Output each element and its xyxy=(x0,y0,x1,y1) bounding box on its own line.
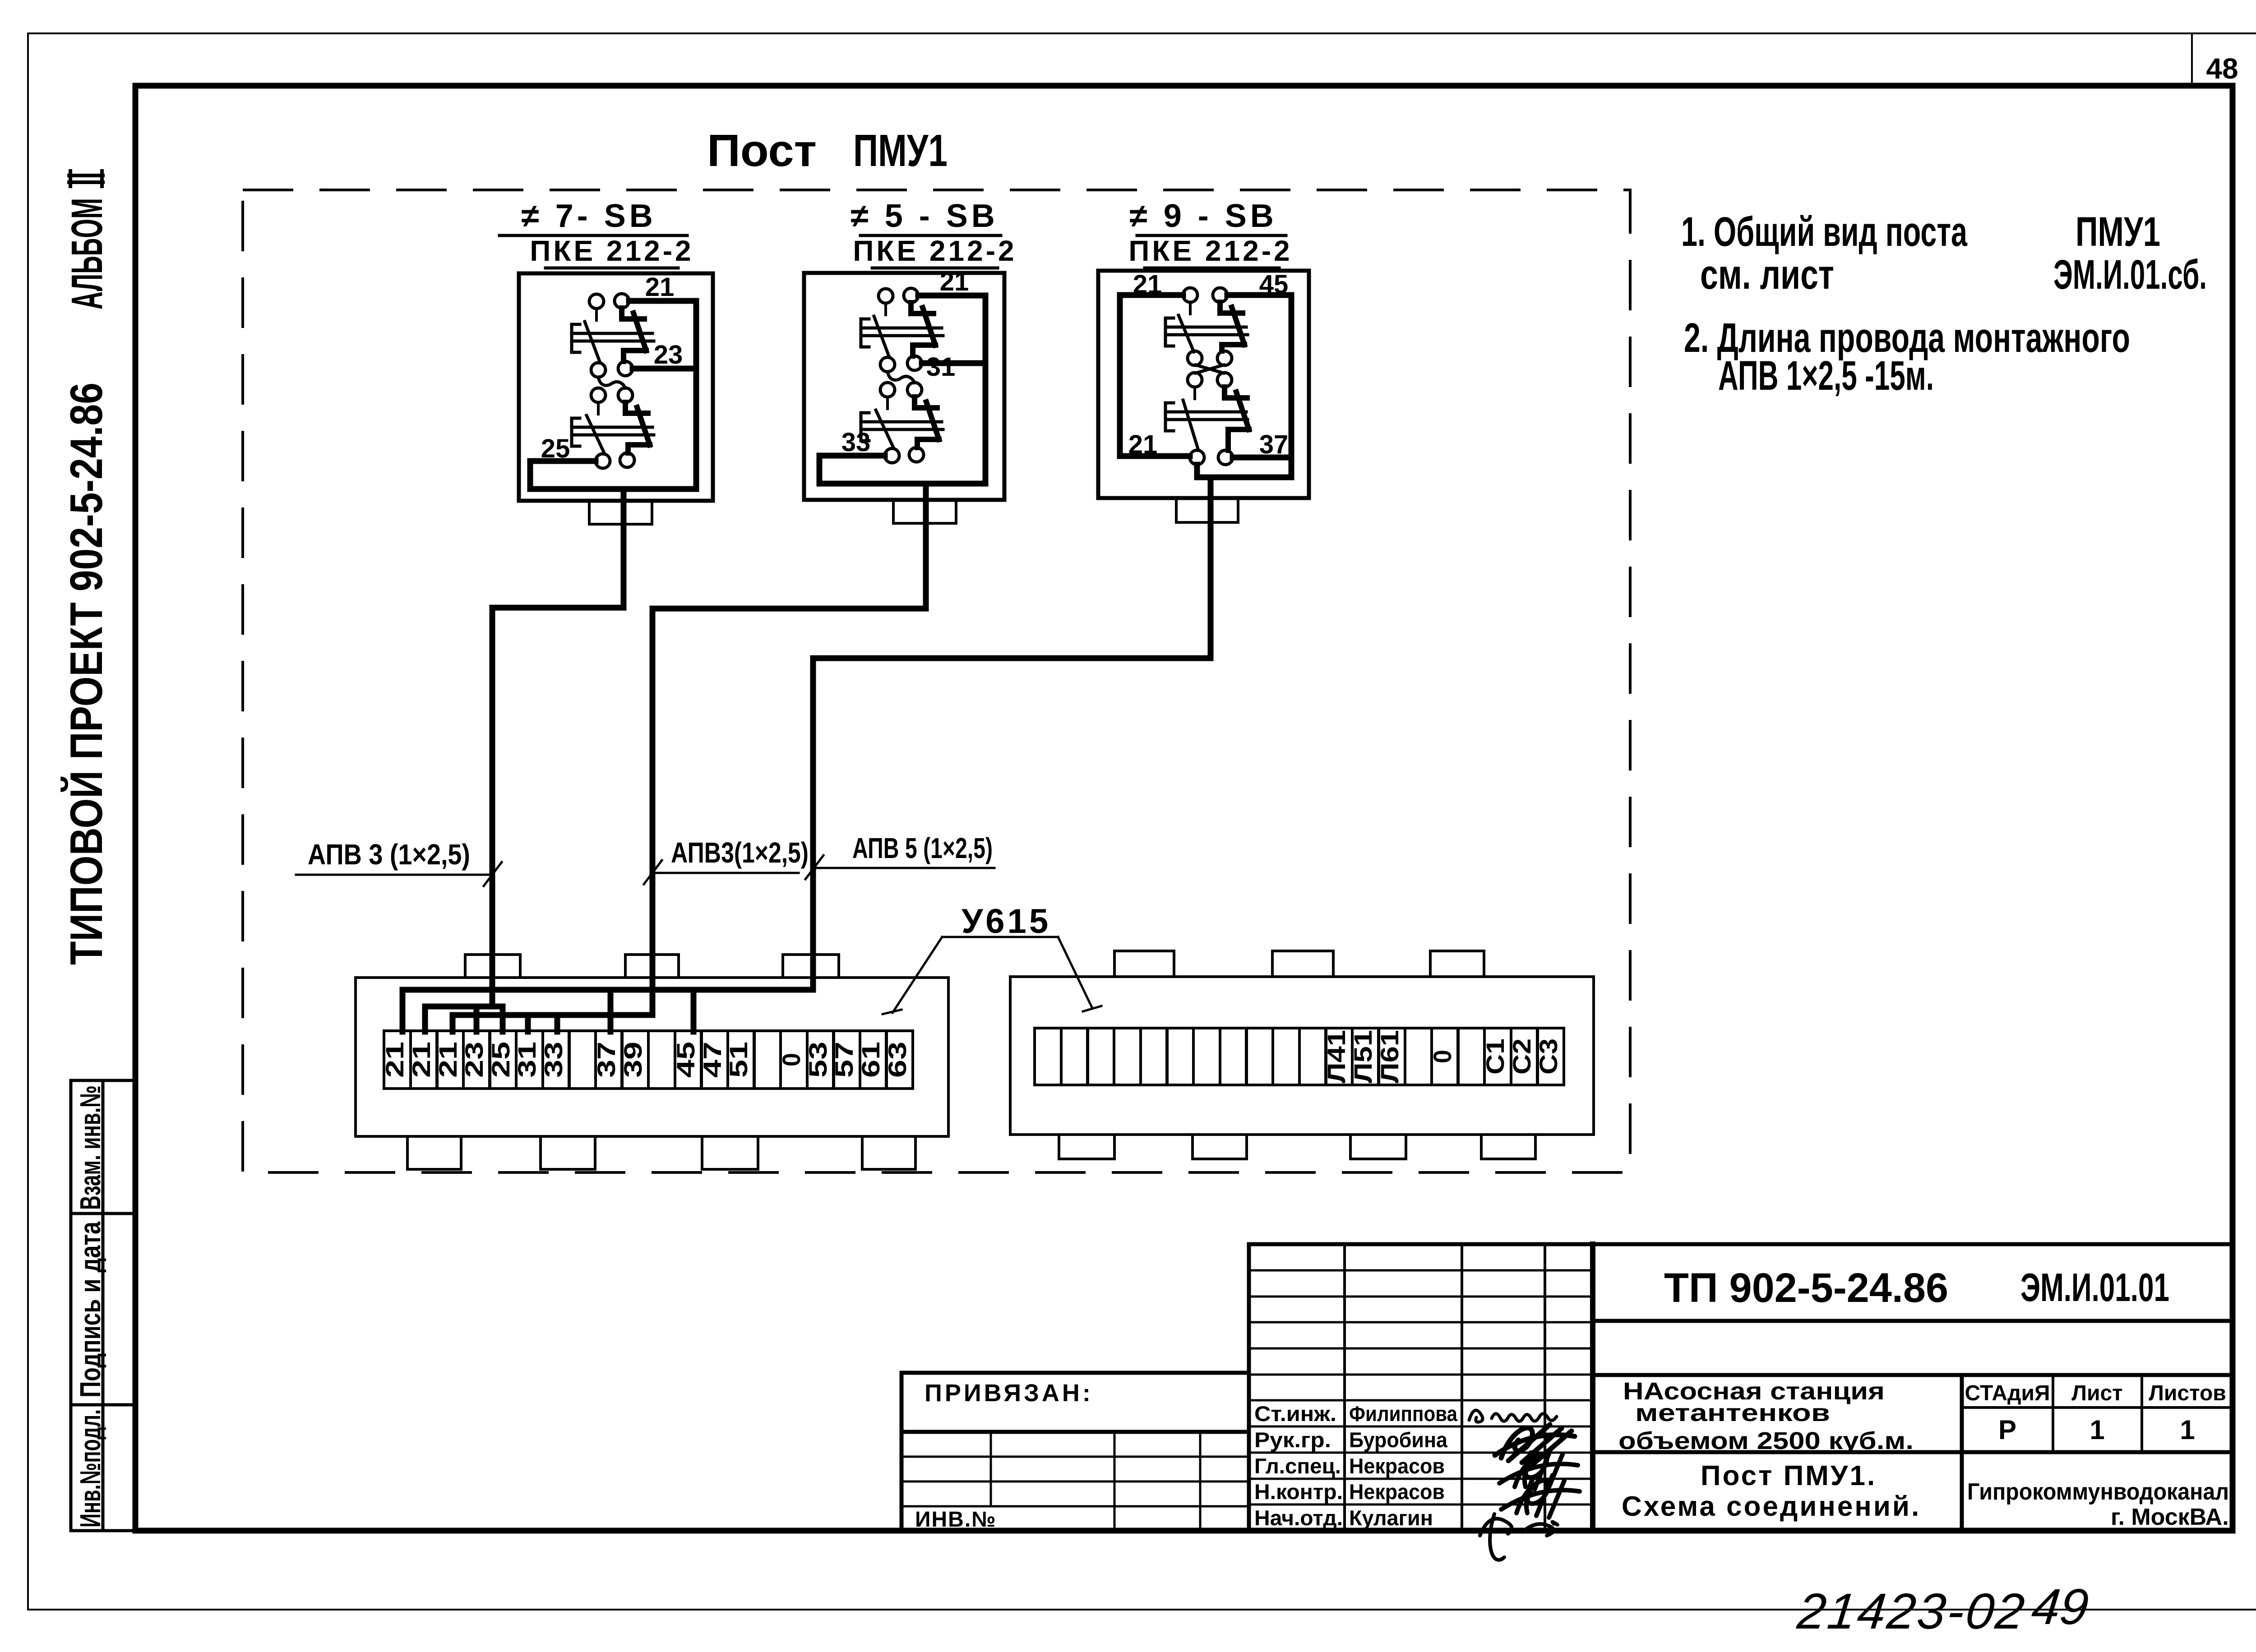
svg-text:Инв.№подл.: Инв.№подл. xyxy=(74,1409,106,1527)
svg-text:Кулагин: Кулагин xyxy=(1349,1506,1433,1530)
SB5 contact 1 fixed side xyxy=(861,303,943,357)
XT2 bottom mounting tabs xyxy=(1059,1135,1535,1159)
svg-text:Пост: Пост xyxy=(707,125,817,176)
svg-text:0: 0 xyxy=(1428,1050,1456,1063)
svg-text:21: 21 xyxy=(1133,270,1162,299)
SB9 internal jumper wire 37 xyxy=(1233,455,1291,461)
push-button SB5 enclosure box xyxy=(804,273,1004,500)
svg-text:33: 33 xyxy=(539,1042,568,1078)
svg-text:31: 31 xyxy=(926,352,956,382)
XT1 branch leg to terminal 25 xyxy=(500,1006,506,1032)
svg-text:Взам. инв.№: Взам. инв.№ xyxy=(74,1085,106,1210)
XT2 top mounting tabs xyxy=(1114,951,1484,977)
svg-text:21: 21 xyxy=(407,1042,435,1078)
svg-text:ПКЕ 212-2: ПКЕ 212-2 xyxy=(530,235,693,267)
svg-text:21: 21 xyxy=(1128,430,1158,459)
SB7 contact 1 fixed side xyxy=(572,309,654,363)
svg-text:37: 37 xyxy=(592,1042,620,1078)
svg-text:Р: Р xyxy=(1998,1415,2016,1445)
roman numeral II with bars xyxy=(69,171,103,186)
svg-text:Лист: Лист xyxy=(2071,1381,2122,1405)
svg-text:21: 21 xyxy=(380,1042,409,1078)
svg-text:Пост ПМУ1.: Пост ПМУ1. xyxy=(1701,1460,1877,1491)
line under empty row xyxy=(1593,1373,2233,1377)
XT1 branch leg to terminal 21-3 xyxy=(450,1015,456,1032)
line under document number row xyxy=(1593,1319,2233,1323)
svg-text:≠ 9 - SB: ≠ 9 - SB xyxy=(1129,198,1277,234)
signature Некрасов 2 xyxy=(1501,1475,1580,1518)
svg-text:Ст.инж.: Ст.инж. xyxy=(1254,1402,1336,1426)
svg-text:21: 21 xyxy=(940,267,969,296)
left stamp box ВЗАМ.ИНВ.№ xyxy=(71,1080,135,1214)
svg-text:53: 53 xyxy=(804,1042,832,1078)
SB9 terminal circles xyxy=(1183,288,1233,465)
title block revision grid verticals xyxy=(1247,1244,1251,1531)
svg-text:ТИПОВОЙ ПРОЕКТ 902-5-24.86: ТИПОВОЙ ПРОЕКТ 902-5-24.86 xyxy=(61,383,112,965)
XT1 branch leg to terminal 21-1 xyxy=(400,990,406,1032)
XT1 internal branch bus of SB9 wire xyxy=(402,987,813,993)
SB5 terminal circles xyxy=(878,288,924,463)
left stamp box Инв.№подл. xyxy=(71,1405,135,1531)
XT2 terminal numbers xyxy=(1322,1030,1563,1083)
sheet title Пост ПМУ1 Схема соединений xyxy=(1622,1460,1921,1522)
svg-text:45: 45 xyxy=(1259,270,1289,299)
stage table headers xyxy=(1965,1381,2226,1405)
SB5 contact 2 moving blade thick xyxy=(915,397,939,448)
organisation Гипрокоммунводоканал г.Москва xyxy=(1967,1479,2229,1530)
SB9 internal jumper wire 45 xyxy=(1227,295,1291,477)
svg-text:ПКЕ 212-2: ПКЕ 212-2 xyxy=(1128,235,1292,267)
XT1 branch leg to terminal 23 xyxy=(474,1006,480,1032)
stage values Р 1 1 xyxy=(1998,1415,2195,1445)
XT1 branch leg to terminal 33 xyxy=(555,1015,560,1032)
signature Филиппова xyxy=(1469,1410,1557,1422)
svg-text:ЭМ.И.01.сб.: ЭМ.И.01.сб. xyxy=(2053,252,2207,298)
wire АПВ5 from SB9 to terminal block XT1 xyxy=(813,477,1211,990)
push-button SB9 enclosure box xyxy=(1098,271,1309,498)
SB7 cable gland tab xyxy=(589,501,652,524)
svg-text:Буробина: Буробина xyxy=(1349,1428,1448,1452)
svg-text:Подпись и дата: Подпись и дата xyxy=(74,1222,106,1398)
svg-text:ТП 902-5-24.86: ТП 902-5-24.86 xyxy=(1664,1265,1948,1311)
SB7 internal jumper wire 23 xyxy=(633,366,696,372)
SB5 link curve between contacts xyxy=(888,372,915,383)
svg-text:ПМУ1: ПМУ1 xyxy=(2076,209,2160,255)
SB5 cable gland tab xyxy=(893,500,956,523)
svg-text:Л51: Л51 xyxy=(1349,1030,1377,1083)
svg-text:У615: У615 xyxy=(962,902,1051,941)
XT2 terminal strip cells xyxy=(1035,1028,1564,1085)
svg-text:Н.контр.: Н.контр. xyxy=(1254,1480,1343,1504)
SB7 terminal circles xyxy=(589,294,634,468)
svg-text:1: 1 xyxy=(2180,1415,2195,1445)
svg-text:37: 37 xyxy=(1259,430,1289,459)
SB9 contact 1 fixed side xyxy=(1165,302,1248,352)
signature Буробина xyxy=(1495,1425,1575,1464)
XT1 internal branch bus of SB7 wire xyxy=(425,1004,503,1010)
svg-text:1. Общий вид поста: 1. Общий вид поста xyxy=(1681,209,1968,255)
XT1 branch leg to terminal 31 xyxy=(525,1015,531,1032)
XT1 branch leg to terminal 45 xyxy=(691,990,697,1032)
SB5 internal jumper wire 21 xyxy=(918,295,985,481)
svg-text:ЭМ.И.01.01: ЭМ.И.01.01 xyxy=(2020,1265,2169,1310)
svg-text:Филиппова: Филиппова xyxy=(1349,1402,1458,1426)
svg-text:Л41: Л41 xyxy=(1322,1030,1350,1083)
svg-text:АПВ 5 (1×2,5): АПВ 5 (1×2,5) xyxy=(852,832,993,864)
svg-text:ПКЕ 212-2: ПКЕ 212-2 xyxy=(853,235,1017,267)
svg-text:0: 0 xyxy=(777,1053,805,1066)
svg-text:АПВ 3 (1×2,5): АПВ 3 (1×2,5) xyxy=(308,838,470,871)
wire АПВ3 from SB7 to terminal block XT1 xyxy=(492,489,624,1006)
svg-text:ПМУ1: ПМУ1 xyxy=(853,125,948,176)
svg-text:ИНВ.№: ИНВ.№ xyxy=(915,1508,997,1532)
svg-text:48: 48 xyxy=(2206,52,2238,85)
handwritten archive number 21423-02 49 xyxy=(1794,1578,2091,1639)
SB9 contact 2 fixed side xyxy=(1165,387,1248,450)
svg-text:25: 25 xyxy=(486,1042,515,1078)
SB9 crossover link X xyxy=(1196,365,1224,373)
svg-text:СТАдиЯ: СТАдиЯ xyxy=(1965,1381,2050,1405)
svg-text:63: 63 xyxy=(883,1042,911,1078)
svg-text:Листов: Листов xyxy=(2149,1381,2226,1405)
title block revision grid rows xyxy=(1249,1270,1593,1504)
SB7 link curve between contacts xyxy=(598,377,625,388)
XT1 bottom mounting tabs xyxy=(407,1136,915,1169)
svg-text:АЛЬБОМ: АЛЬБОМ xyxy=(62,198,111,309)
svg-text:45: 45 xyxy=(671,1042,700,1078)
XT1 terminal numbers xyxy=(380,1042,911,1078)
SB7 internal jumper wire 21 xyxy=(629,301,696,486)
Привязан box xyxy=(901,1373,1249,1432)
XT1 branch leg to terminal 37 xyxy=(608,990,614,1032)
SB7 internal jumper wire 25 and exit bus xyxy=(530,461,696,489)
svg-text:метантенков: метантенков xyxy=(1635,1399,1830,1426)
svg-text:Гипрокоммунводоканал: Гипрокоммунводоканал xyxy=(1967,1479,2229,1505)
SB5 contact 1 moving blade thick xyxy=(911,303,935,356)
svg-text:47: 47 xyxy=(698,1042,726,1078)
SB7 contact 2 fixed side xyxy=(572,402,654,454)
svg-text:25: 25 xyxy=(541,434,570,463)
SB7 contact 2 moving blade thick xyxy=(625,402,650,453)
SB5 internal jumper wire 31 xyxy=(922,360,985,366)
line under description row xyxy=(1593,1450,2233,1454)
SB5 internal jumper wire 33 and exit bus xyxy=(819,456,985,484)
svg-text:г. МоскВА.: г. МоскВА. xyxy=(2111,1504,2229,1530)
signature Некрасов 1 xyxy=(1499,1449,1578,1491)
svg-text:Нач.отд.: Нач.отд. xyxy=(1254,1506,1343,1530)
svg-text:АПВ 1×2,5 -15м.: АПВ 1×2,5 -15м. xyxy=(1718,353,1934,399)
svg-text:21: 21 xyxy=(434,1042,462,1078)
terminal block XT2 body xyxy=(1010,977,1594,1135)
svg-text:39: 39 xyxy=(619,1042,647,1078)
svg-text:Рук.гр.: Рук.гр. xyxy=(1254,1428,1331,1452)
left stamp box Подпись и дата xyxy=(71,1214,135,1405)
svg-text:Гл.спец.: Гл.спец. xyxy=(1254,1454,1341,1478)
svg-text:61: 61 xyxy=(856,1042,885,1078)
wire АПВ3 from SB5 to terminal block XT1 xyxy=(652,484,926,1015)
svg-text:33: 33 xyxy=(841,428,871,457)
SB9 contact 2 moving blade thick xyxy=(1225,387,1249,450)
svg-text:≠ 5 - SB: ≠ 5 - SB xyxy=(851,198,999,234)
svg-text:49: 49 xyxy=(2029,1578,2091,1635)
SB9 bottom exit bus xyxy=(1197,465,1291,477)
svg-text:С2: С2 xyxy=(1507,1038,1536,1075)
svg-text:см. лист: см. лист xyxy=(1700,252,1834,298)
SB5 contact 2 fixed side xyxy=(861,397,943,448)
svg-text:31: 31 xyxy=(513,1042,541,1078)
dashed enclosure border of post ПМУ1 xyxy=(243,190,1630,1172)
svg-text:23: 23 xyxy=(654,340,683,369)
XT1 branch leg to terminal 21-2 xyxy=(422,1006,428,1032)
XT1 top mounting tabs xyxy=(465,955,839,978)
title block top edge xyxy=(1249,1242,2233,1246)
role and name entries xyxy=(1254,1402,1458,1530)
svg-text:С3: С3 xyxy=(1534,1038,1563,1075)
stage table verticals xyxy=(1960,1375,1964,1531)
svg-text:21: 21 xyxy=(645,272,675,302)
page number box 48 xyxy=(2191,33,2193,86)
svg-text:С1: С1 xyxy=(1481,1038,1509,1075)
push-button SB7 enclosure box xyxy=(519,273,713,501)
svg-text:Схема соединений.: Схема соединений. xyxy=(1622,1491,1921,1522)
svg-text:1: 1 xyxy=(2090,1415,2104,1445)
svg-text:≠ 7- SB: ≠ 7- SB xyxy=(521,198,656,234)
SB9 contact 1 moving blade thick xyxy=(1220,302,1244,351)
svg-text:Некрасов: Некрасов xyxy=(1349,1480,1445,1504)
SB9 left jumper bus linking 21-21 xyxy=(1120,295,1190,456)
SB9 cable gland tab xyxy=(1176,498,1238,522)
svg-text:23: 23 xyxy=(460,1042,488,1078)
signature Кулагин xyxy=(1480,1514,1558,1560)
SB7 contact 1 moving blade thick xyxy=(622,308,646,361)
bottom-left auxiliary grid xyxy=(900,1432,904,1531)
svg-text:21423-02: 21423-02 xyxy=(1794,1583,2029,1639)
svg-text:57: 57 xyxy=(830,1042,858,1078)
XT1 terminal strip cells xyxy=(384,1031,913,1089)
svg-text:АПВ3(1×2,5): АПВ3(1×2,5) xyxy=(671,836,809,869)
svg-text:Некрасов: Некрасов xyxy=(1349,1454,1445,1478)
svg-text:Л61: Л61 xyxy=(1375,1030,1404,1083)
svg-text:51: 51 xyxy=(724,1042,753,1078)
terminal block XT1 body xyxy=(356,978,948,1136)
svg-text:ПРИВЯЗАН:: ПРИВЯЗАН: xyxy=(925,1380,1093,1407)
project description xyxy=(1618,1378,1914,1454)
XT1 internal branch bus of SB5 wire xyxy=(453,1012,652,1018)
